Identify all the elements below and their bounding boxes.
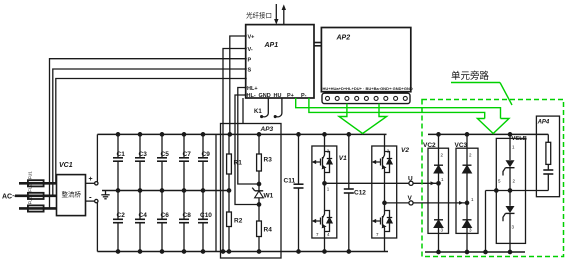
- svg-text:V-: V-: [248, 47, 253, 53]
- wire bottom DC bus: [97, 251, 388, 253]
- fuse FU2: [28, 193, 44, 199]
- svg-text:HU+HUa+D+HL+DU+ · BU+Ba·GND+·G: HU+HUa+D+HL+DU+ · BU+Ba·GND+·GND+GND: [323, 86, 413, 91]
- thyristor W1: [252, 184, 273, 206]
- fuse FU1: [28, 180, 44, 186]
- resistor R in AP4: [547, 134, 549, 142]
- svg-text:K1: K1: [254, 109, 262, 115]
- SECTION: capacitor bank: [113, 133, 212, 254]
- SECTION: AP1 AP2 boards: [245, 4, 413, 104]
- wire AP1 P- to bypass gates: [309, 98, 485, 119]
- svg-text:U: U: [408, 176, 413, 183]
- svg-text:P+: P+: [287, 93, 294, 99]
- svg-text:V2: V2: [401, 147, 409, 154]
- wire bypass bottom bus: [425, 251, 525, 253]
- svg-text:V1: V1: [339, 155, 347, 162]
- diode VC2 lower: [434, 220, 443, 228]
- svg-text:V: V: [408, 195, 413, 202]
- svg-text:R1: R1: [234, 160, 243, 167]
- capacitor C5: [157, 133, 169, 193]
- capacitor C8: [179, 191, 191, 254]
- wire AC phase 2: [15, 195, 57, 198]
- fiber tx arrow: [283, 9, 285, 25]
- AP1 pin labels: [247, 35, 307, 99]
- svg-text:R2: R2: [234, 218, 243, 225]
- SECTION: AP1 wires: [50, 36, 282, 253]
- wire minus output to bottom bus: [96, 203, 98, 252]
- wire AP1 pin HL- to thyristor W1 anode: [235, 95, 259, 205]
- IGBT module V1: [312, 133, 347, 254]
- svg-text:7: 7: [316, 232, 319, 237]
- capacitor C in AP4: [543, 169, 553, 171]
- transistor V1 lower IGBT: [313, 209, 332, 233]
- terminal circles: [326, 96, 408, 100]
- svg-text:AP3: AP3: [260, 126, 274, 133]
- capacitor C10: [198, 191, 212, 254]
- wire AP1 P+ to bypass gates: [296, 98, 501, 119]
- svg-text:FU1: FU1: [28, 171, 33, 180]
- svg-text:AP2: AP2: [336, 35, 351, 42]
- capacitor C9: [198, 133, 210, 193]
- svg-text:C7: C7: [183, 151, 192, 158]
- node VC1 plus output: [86, 182, 95, 184]
- control board AP2: [321, 28, 410, 92]
- svg-text:-: -: [89, 193, 92, 202]
- resistor R3: [257, 133, 273, 186]
- bypass gate arrow: [477, 119, 509, 134]
- node VC1 minus output: [86, 200, 95, 202]
- capacitor C1: [113, 133, 125, 193]
- svg-text:2: 2: [513, 179, 516, 184]
- wire thyristor mid node: [484, 189, 549, 254]
- svg-text:FU3: FU3: [28, 196, 33, 205]
- diode VC3 upper: [463, 165, 472, 173]
- wire AP1 pin P to AC phase 3: [50, 59, 246, 209]
- snubber board AP3: [221, 124, 282, 259]
- svg-text:AP4: AP4: [537, 120, 550, 126]
- svg-text:V+: V+: [248, 35, 255, 41]
- svg-text:FU2: FU2: [28, 183, 33, 192]
- fiber rx arrow: [275, 4, 277, 20]
- svg-text:1: 1: [441, 177, 444, 182]
- transistor V1 upper IGBT: [313, 150, 332, 174]
- svg-text:C11: C11: [284, 178, 296, 185]
- svg-text:HL-: HL-: [247, 93, 256, 99]
- wire mid node to bottom bus: [485, 191, 487, 253]
- diode leg VC3: [455, 133, 479, 254]
- thyristor V5 lower: [506, 206, 515, 213]
- svg-text:GND: GND: [259, 93, 271, 99]
- ground on middle bus: [105, 191, 107, 195]
- svg-text:5: 5: [498, 179, 501, 184]
- svg-text:HU: HU: [274, 93, 282, 99]
- svg-text:C1: C1: [117, 151, 126, 158]
- svg-text:C6: C6: [161, 212, 170, 219]
- wire AP1 pin V- to bottom bus: [223, 49, 246, 252]
- svg-text:C9: C9: [202, 151, 211, 158]
- svg-text:+: +: [89, 176, 93, 183]
- wire middle bus: [102, 190, 229, 192]
- svg-text:P-: P-: [301, 93, 307, 99]
- capacitor C12: [344, 133, 367, 254]
- wire AP1 pin V+ to top bus: [230, 36, 246, 134]
- SECTION: green bypass annotations: [296, 70, 564, 257]
- svg-text:C8: C8: [183, 212, 192, 219]
- svg-text:3: 3: [512, 225, 515, 230]
- capacitor C2: [113, 191, 125, 254]
- wire AC phase 1: [19, 182, 57, 185]
- node V output: [385, 195, 468, 205]
- wire gate bundle from AP2 with arrow: [339, 104, 387, 134]
- svg-text:C3: C3: [139, 151, 148, 158]
- wire plus output to top bus: [96, 134, 98, 181]
- svg-text:VC1: VC1: [59, 162, 73, 169]
- IGBT module V2: [372, 134, 410, 251]
- svg-text:整流桥: 整流桥: [62, 190, 82, 199]
- svg-text:C4: C4: [139, 212, 148, 219]
- wire AP1 pin HL+ to thyristor W1 cathode: [238, 88, 259, 185]
- resistor R1: [227, 134, 243, 192]
- capacitor C3: [135, 133, 147, 193]
- svg-text:P: P: [248, 57, 252, 63]
- diode leg VC2: [423, 133, 449, 254]
- svg-text:1: 1: [512, 145, 515, 150]
- snubber board AP4: [536, 116, 559, 197]
- fuse FU3: [28, 205, 44, 211]
- wire AP1 bottom to AP3: [242, 98, 244, 124]
- svg-text:R3: R3: [264, 157, 273, 164]
- svg-text:C2: C2: [117, 212, 126, 219]
- svg-text:AC~: AC~: [2, 194, 16, 201]
- svg-text:3: 3: [441, 228, 444, 233]
- wire bypass top bus: [428, 133, 548, 135]
- svg-text:1: 1: [471, 197, 474, 202]
- transistor V2 upper IGBT: [373, 150, 392, 174]
- wire V to VC3: [413, 202, 467, 204]
- SECTION: AP3 board: [221, 124, 304, 259]
- svg-text:光纤接口: 光纤接口: [246, 11, 272, 20]
- svg-text:C10: C10: [200, 212, 212, 219]
- thyristor V5 upper: [506, 160, 515, 167]
- wire top DC bus: [97, 133, 386, 135]
- capacitor C11: [284, 133, 304, 254]
- wire cap bank right frame: [215, 134, 217, 251]
- svg-text:单元旁路: 单元旁路: [451, 70, 490, 82]
- svg-text:C12: C12: [354, 190, 366, 197]
- wire U to VC2: [413, 182, 438, 184]
- svg-text:1: 1: [327, 187, 330, 192]
- svg-text:2: 2: [469, 153, 472, 158]
- svg-text:AP1: AP1: [264, 42, 279, 49]
- capacitor C4: [135, 191, 147, 254]
- node U output: [325, 176, 439, 186]
- wire AP1 pin T to AC phase 1: [56, 79, 246, 184]
- link AP1 to AP2: [314, 42, 321, 44]
- svg-text:2: 2: [441, 153, 444, 158]
- control board AP1: [246, 25, 314, 98]
- svg-text:R4: R4: [264, 227, 273, 234]
- wire AC phase 3: [19, 207, 57, 210]
- bypass unit dashed border: [422, 100, 564, 257]
- diode VC3 lower: [463, 220, 472, 228]
- AP1 pin ticks: [245, 35, 247, 96]
- svg-text:HL+: HL+: [247, 86, 258, 92]
- connector K1: [254, 98, 282, 118]
- capacitor C6: [157, 191, 169, 254]
- wire AP1 pin S to AC phase 2: [53, 69, 246, 196]
- svg-text:3: 3: [469, 228, 472, 233]
- resistor R4: [257, 205, 273, 254]
- resistor R2: [227, 191, 243, 254]
- svg-text:W1: W1: [264, 193, 274, 200]
- thyristor module VSLB: [496, 133, 527, 254]
- svg-text:C5: C5: [161, 151, 170, 158]
- svg-text:S: S: [248, 68, 252, 74]
- capacitor C7: [179, 133, 191, 193]
- svg-text:7: 7: [376, 232, 379, 237]
- AP2 terminal strip: [322, 93, 410, 103]
- diode VC2 upper: [434, 165, 443, 173]
- transistor V2 lower IGBT: [373, 209, 392, 233]
- svg-text:4: 4: [327, 232, 330, 237]
- rectifier VC1: [57, 175, 86, 216]
